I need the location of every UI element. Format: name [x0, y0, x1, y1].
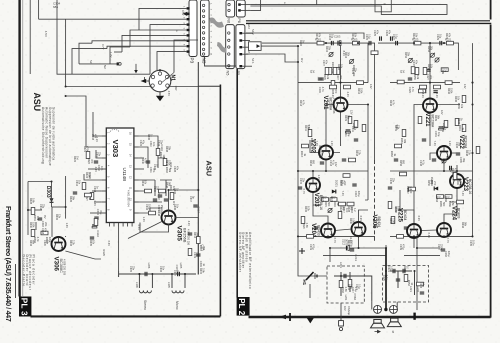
svg-text:4 928 250 256: 4 928 250 256	[186, 229, 189, 246]
svg-text:22n: 22n	[98, 152, 101, 157]
svg-text:R346: R346	[165, 182, 168, 189]
svg-text:R233: R233	[347, 284, 350, 291]
svg-text:PL 3: PL 3	[19, 298, 28, 316]
svg-text:R241: R241	[458, 125, 461, 132]
svg-text:R252: R252	[404, 52, 407, 59]
svg-text:C307: C307	[173, 270, 176, 277]
svg-text:R251: R251	[394, 125, 397, 132]
svg-text:R249: R249	[456, 179, 459, 186]
svg-text:16V: 16V	[343, 306, 347, 311]
svg-text:U114B: U114B	[122, 168, 127, 182]
svg-text:220µ: 220µ	[447, 251, 450, 257]
svg-text:V221: V221	[424, 113, 430, 128]
svg-text:C308: C308	[91, 134, 94, 141]
svg-text:R212: R212	[357, 88, 360, 95]
svg-text:C305: C305	[129, 266, 132, 273]
svg-text:470µ: 470µ	[402, 244, 405, 250]
svg-text:N2: N2	[89, 60, 93, 64]
svg-text:R211: R211	[304, 125, 307, 131]
svg-text:C217: C217	[355, 284, 358, 291]
svg-text:R262: R262	[406, 186, 409, 193]
svg-text:47n: 47n	[429, 75, 432, 80]
svg-text:12V: 12V	[440, 110, 444, 115]
svg-text:10n: 10n	[152, 142, 155, 147]
svg-text:22n: 22n	[132, 266, 135, 271]
svg-text:C213: C213	[354, 191, 357, 198]
svg-text:0.1µ: 0.1µ	[390, 266, 393, 271]
svg-text:C318: C318	[41, 228, 44, 235]
svg-text:22µ: 22µ	[42, 204, 45, 209]
svg-text:270: 270	[430, 180, 433, 185]
svg-text:1.2V: 1.2V	[109, 52, 113, 58]
svg-text:C314: C314	[93, 186, 96, 193]
svg-text:R334: R334	[29, 240, 32, 247]
svg-text:47n: 47n	[376, 30, 379, 35]
svg-text:4.7µ: 4.7µ	[332, 160, 335, 165]
svg-text:1.6V: 1.6V	[65, 223, 69, 229]
svg-text:4 928 230 308: 4 928 230 308	[63, 259, 66, 276]
svg-text:C219: C219	[309, 244, 312, 251]
svg-text:4.7k: 4.7k	[454, 168, 457, 173]
svg-text:BC238A: BC238A	[328, 98, 332, 111]
svg-text:C317: C317	[197, 206, 201, 213]
svg-text:1M: 1M	[76, 156, 79, 159]
svg-text:R214: R214	[299, 100, 302, 107]
svg-text:Automatic Noise Suppression: Automatic Noise Suppression	[45, 107, 49, 158]
svg-text:N3: N3	[201, 58, 206, 64]
svg-text:10n: 10n	[46, 240, 49, 245]
svg-text:Decoder board: Decoder board	[25, 255, 29, 287]
svg-text:4 928 220 238: 4 928 220 238	[332, 98, 335, 114]
svg-text:R244: R244	[461, 222, 464, 229]
svg-text:C309: C309	[193, 252, 196, 259]
svg-text:150k: 150k	[360, 88, 363, 94]
svg-text:0.6Amp: 0.6Amp	[347, 306, 351, 315]
svg-text:C249: C249	[441, 68, 444, 75]
svg-text:R343: R343	[165, 167, 168, 174]
svg-text:ST: ST	[399, 70, 402, 74]
svg-text:R201: R201	[315, 33, 318, 40]
svg-text:10µ: 10µ	[439, 34, 442, 39]
svg-text:15n: 15n	[196, 252, 199, 257]
svg-text:100k: 100k	[88, 172, 91, 178]
svg-text:14V: 14V	[369, 84, 373, 89]
svg-text:R223: R223	[412, 33, 415, 40]
svg-text:R242: R242	[447, 88, 450, 95]
svg-text:0.1µ: 0.1µ	[422, 282, 425, 287]
svg-text:10µ: 10µ	[437, 132, 440, 137]
svg-text:C324: C324	[157, 140, 160, 147]
svg-text:R218: R218	[355, 150, 358, 157]
svg-text:C320: C320	[43, 240, 46, 247]
svg-text:22n: 22n	[444, 68, 447, 73]
svg-text:C241: C241	[441, 126, 444, 133]
svg-text:C311: C311	[149, 167, 152, 173]
svg-text:150p: 150p	[148, 204, 151, 210]
svg-text:Frankfurt Stereo (ASU) 7.635.4: Frankfurt Stereo (ASU) 7.635.440 / 447	[4, 206, 13, 322]
svg-text:4.5V: 4.5V	[44, 31, 48, 37]
svg-text:1.3V: 1.3V	[448, 141, 452, 147]
svg-text:4.7k: 4.7k	[392, 100, 395, 105]
svg-text:0.56: 0.56	[392, 218, 395, 223]
svg-text:7.4V: 7.4V	[341, 191, 345, 197]
svg-text:R248: R248	[465, 150, 468, 157]
svg-text:R211: R211	[310, 138, 313, 144]
svg-text:H1: H1	[302, 280, 307, 286]
svg-text:C211: C211	[344, 131, 347, 137]
svg-text:C243: C243	[419, 160, 422, 167]
svg-text:6.5V: 6.5V	[137, 225, 141, 231]
svg-text:R340: R340	[141, 158, 144, 165]
svg-text:R238: R238	[457, 118, 460, 125]
svg-text:150k: 150k	[32, 222, 35, 228]
svg-text:R313: R313	[199, 245, 202, 252]
svg-text:47n: 47n	[415, 60, 418, 65]
svg-text:C207: C207	[322, 60, 325, 67]
svg-text:4.5V: 4.5V	[167, 91, 171, 97]
svg-text:47n: 47n	[176, 166, 179, 171]
svg-text:11V: 11V	[300, 58, 304, 63]
svg-text:2.4V: 2.4V	[346, 92, 350, 98]
svg-text:R348: R348	[157, 210, 160, 217]
svg-text:wf 1: wf 1	[247, 50, 251, 55]
svg-text:Stereo-NF-Verstärker: Stereo-NF-Verstärker	[238, 232, 242, 273]
svg-text:4.7k: 4.7k	[36, 237, 39, 242]
svg-text:V306: V306	[53, 257, 60, 272]
svg-text:C209: C209	[318, 87, 321, 94]
svg-text:150k: 150k	[168, 160, 171, 166]
svg-text:R266: R266	[448, 201, 451, 208]
svg-text:C328: C328	[173, 166, 176, 173]
svg-text:R265: R265	[439, 201, 442, 208]
svg-text:2.4V: 2.4V	[435, 93, 439, 99]
svg-text:ASU: ASU	[32, 93, 42, 112]
svg-text:4.7µ: 4.7µ	[422, 160, 425, 165]
svg-text:R341: R341	[159, 152, 162, 159]
svg-text:C203: C203	[328, 34, 331, 41]
svg-text:ASU: ASU	[205, 161, 214, 177]
svg-text:0.7V: 0.7V	[101, 44, 105, 50]
svg-text:2200µ: 2200µ	[350, 240, 353, 248]
svg-text:3.9k: 3.9k	[202, 268, 205, 273]
svg-text:V203: V203	[313, 193, 319, 208]
svg-text:R216: R216	[309, 160, 312, 167]
svg-text:0.1µ: 0.1µ	[358, 284, 361, 289]
svg-text:R266: R266	[444, 196, 447, 203]
svg-text:P6: P6	[237, 18, 241, 23]
svg-text:C226: C226	[385, 30, 388, 37]
svg-text:47n: 47n	[94, 134, 97, 139]
svg-text:0.56: 0.56	[344, 287, 347, 292]
svg-text:47n: 47n	[44, 228, 47, 233]
svg-text:R221: R221	[445, 33, 448, 40]
svg-text:BC308C: BC308C	[59, 259, 63, 274]
svg-text:R321: R321	[83, 146, 86, 153]
svg-text:0.1µ: 0.1µ	[395, 34, 398, 39]
svg-text:560: 560	[327, 202, 330, 207]
svg-text:4.7n: 4.7n	[411, 87, 414, 92]
svg-text:C316: C316	[96, 230, 100, 237]
svg-text:BC238-16: BC238-16	[468, 179, 472, 194]
svg-text:L306: L306	[147, 263, 151, 269]
svg-text:Supresión de ruido automáti: Supresión de ruido automática	[51, 107, 55, 160]
svg-text:R264: R264	[435, 196, 438, 203]
svg-text:8V: 8V	[43, 215, 47, 218]
svg-text:10n: 10n	[162, 266, 165, 271]
svg-text:V305: V305	[176, 226, 183, 242]
svg-text:680: 680	[312, 160, 315, 165]
svg-text:470: 470	[334, 89, 337, 94]
svg-text:C223: C223	[419, 282, 422, 289]
svg-text:C336: C336	[173, 204, 176, 211]
svg-text:4.7k: 4.7k	[144, 158, 147, 163]
svg-text:R236: R236	[454, 96, 457, 103]
svg-text:R256: R256	[399, 160, 402, 167]
svg-text:4.5V: 4.5V	[181, 10, 185, 16]
svg-text:C209: C209	[351, 68, 354, 75]
svg-text:47µ: 47µ	[99, 210, 102, 215]
svg-text:0.6V: 0.6V	[107, 241, 111, 247]
svg-text:10µ: 10µ	[347, 132, 350, 137]
svg-text:470: 470	[424, 89, 427, 94]
svg-text:R258: R258	[427, 64, 430, 71]
svg-text:100: 100	[409, 186, 412, 191]
svg-text:56p: 56p	[176, 270, 179, 275]
svg-text:22n: 22n	[156, 186, 159, 191]
svg-text:R338: R338	[165, 146, 168, 153]
svg-text:BD434: BD434	[403, 210, 407, 220]
svg-text:0.4V: 0.4V	[427, 233, 431, 239]
svg-text:0.1µ: 0.1µ	[368, 34, 371, 39]
svg-text:C322: C322	[139, 140, 142, 147]
svg-text:R239: R239	[457, 103, 460, 110]
svg-text:R213: R213	[300, 151, 303, 158]
svg-text:C317: C317	[189, 196, 192, 203]
svg-text:Suppression de bruit automa: Suppression de bruit automatique	[48, 107, 52, 166]
svg-text:V303: V303	[111, 140, 120, 158]
svg-text:7.4V: 7.4V	[433, 141, 437, 147]
svg-text:22n: 22n	[392, 178, 395, 183]
svg-text:47n: 47n	[388, 30, 391, 35]
svg-text:R235: R235	[403, 266, 406, 273]
svg-text:R244: R244	[389, 100, 392, 107]
svg-text:C235: C235	[469, 240, 472, 247]
svg-text:0.56Ω: 0.56Ω	[353, 293, 357, 300]
svg-text:Stereo AF amplifier: Stereo AF amplifier	[241, 232, 245, 269]
svg-text:100: 100	[342, 206, 345, 211]
svg-text:N2: N2	[103, 65, 107, 69]
svg-text:R228: R228	[347, 206, 350, 213]
svg-text:7.4V: 7.4V	[461, 191, 465, 197]
svg-text:C235: C235	[459, 157, 462, 164]
svg-text:C310: C310	[95, 152, 98, 159]
svg-text:100n: 100n	[472, 240, 475, 246]
svg-text:0.56: 0.56	[352, 218, 355, 223]
svg-text:NF 2: NF 2	[251, 29, 255, 35]
svg-text:C314: C314	[96, 209, 99, 216]
svg-text:V201: V201	[322, 96, 328, 111]
svg-text:R261: R261	[400, 138, 403, 145]
svg-text:2200µ: 2200µ	[440, 244, 443, 252]
svg-text:10µ: 10µ	[354, 126, 357, 131]
svg-text:C318: C318	[41, 221, 44, 228]
svg-text:R254: R254	[427, 46, 430, 53]
svg-text:C330: C330	[153, 186, 156, 193]
svg-text:R226: R226	[339, 206, 342, 213]
svg-text:R332: R332	[55, 214, 58, 221]
svg-text:R224: R224	[330, 196, 333, 203]
svg-text:R233: R233	[341, 287, 344, 294]
svg-text:R204: R204	[344, 52, 347, 59]
svg-text:C312: C312	[75, 180, 78, 187]
svg-text:150k: 150k	[450, 88, 453, 94]
svg-text:R330: R330	[29, 222, 32, 229]
svg-text:560: 560	[442, 202, 445, 207]
svg-text:V224: V224	[450, 206, 456, 221]
svg-text:10µ: 10µ	[331, 34, 334, 39]
svg-text:6.9V: 6.9V	[359, 216, 363, 222]
svg-text:N6: N6	[227, 18, 231, 23]
svg-text:68n: 68n	[53, 5, 58, 9]
svg-text:C237: C237	[437, 244, 440, 251]
svg-text:C215: C215	[299, 178, 302, 185]
svg-text:22n: 22n	[302, 178, 305, 183]
svg-text:2.2k: 2.2k	[468, 150, 471, 155]
svg-text:R209: R209	[344, 115, 347, 122]
svg-text:R260: R260	[389, 218, 392, 225]
svg-text:Placa decoder: Placa decoder	[32, 255, 36, 286]
svg-text:R328: R328	[29, 198, 32, 205]
svg-text:4.7k: 4.7k	[459, 179, 462, 184]
svg-text:Decoder-Platte: Decoder-Platte	[21, 255, 25, 288]
svg-text:R323: R323	[87, 158, 90, 165]
svg-text:C231: C231	[434, 131, 437, 138]
svg-text:C233: C233	[455, 142, 458, 149]
svg-text:220µ: 220µ	[357, 191, 360, 197]
svg-text:R234: R234	[394, 206, 397, 213]
svg-text:39p: 39p	[458, 142, 461, 147]
svg-text:R335: R335	[102, 249, 106, 256]
svg-text:V205: V205	[371, 215, 377, 230]
svg-text:R220: R220	[339, 180, 342, 187]
svg-text:R322: R322	[73, 156, 76, 163]
svg-text:L201: L201	[344, 295, 348, 301]
svg-text:2.2k: 2.2k	[72, 240, 75, 245]
svg-text:BC308A: BC308A	[464, 136, 468, 149]
svg-text:0.4V: 0.4V	[93, 201, 97, 207]
svg-text:C229: C229	[436, 34, 439, 41]
svg-text:8.2k: 8.2k	[307, 206, 310, 211]
svg-text:C334: C334	[145, 204, 148, 211]
svg-text:C211: C211	[351, 126, 354, 132]
svg-text:C245: C245	[389, 178, 392, 185]
svg-text:22n: 22n	[354, 68, 357, 73]
svg-text:L306: L306	[135, 282, 139, 288]
svg-text:1.2V: 1.2V	[142, 217, 146, 223]
svg-text:C221: C221	[387, 266, 390, 273]
svg-text:P5: P5	[236, 71, 240, 76]
svg-text:R222: R222	[321, 196, 324, 203]
svg-text:1.3V: 1.3V	[330, 141, 334, 147]
svg-text:Amplificador BF estereofónic: Amplificador BF estereofónico	[248, 232, 252, 289]
svg-text:18P: 18P	[174, 86, 178, 91]
svg-text:R344: R344	[141, 180, 144, 187]
svg-text:R336: R336	[147, 134, 150, 141]
svg-text:C225: C225	[373, 30, 376, 37]
svg-text:39p: 39p	[462, 158, 465, 163]
svg-text:10n: 10n	[100, 166, 103, 171]
svg-text:NF 1: NF 1	[251, 58, 255, 64]
svg-text:0.56: 0.56	[350, 284, 353, 289]
svg-text:BC308A: BC308A	[318, 146, 322, 159]
svg-text:C310: C310	[149, 141, 152, 148]
svg-text:C332: C332	[173, 188, 176, 195]
svg-text:4.2V: 4.2V	[187, 221, 191, 227]
svg-text:L221: L221	[409, 286, 413, 292]
svg-text:10n: 10n	[78, 180, 81, 185]
svg-text:470k: 470k	[86, 146, 89, 152]
svg-text:4.7n: 4.7n	[321, 87, 324, 92]
svg-text:D201: D201	[334, 180, 338, 188]
svg-text:C203: C203	[334, 35, 341, 39]
svg-text:47n: 47n	[339, 75, 342, 80]
svg-text:100: 100	[350, 206, 353, 211]
svg-text:C205: C205	[365, 34, 368, 41]
svg-text:C227: C227	[392, 34, 395, 41]
svg-text:C316: C316	[39, 204, 42, 211]
svg-text:C326: C326	[153, 164, 156, 171]
svg-text:PL 2: PL 2	[237, 298, 246, 316]
svg-text:R203: R203	[351, 33, 354, 40]
svg-text:P3: P3	[190, 58, 195, 64]
svg-text:C306: C306	[159, 266, 162, 273]
svg-text:BD434: BD434	[377, 217, 381, 227]
svg-text:470µ: 470µ	[312, 244, 315, 250]
svg-text:R333: R333	[69, 240, 72, 247]
svg-text:R315: R315	[199, 268, 202, 275]
svg-text:Ampli BF stéréo: Ampli BF stéréo	[245, 232, 249, 262]
svg-text:ST: ST	[309, 70, 312, 74]
svg-text:R326: R326	[69, 196, 72, 203]
svg-text:R232: R232	[304, 206, 307, 213]
svg-text:4.7k: 4.7k	[302, 100, 305, 105]
svg-text:C312: C312	[97, 165, 100, 172]
svg-text:R313: R313	[193, 232, 196, 239]
svg-text:0.7V: 0.7V	[333, 238, 337, 244]
svg-text:R208: R208	[337, 64, 340, 71]
svg-text:680: 680	[402, 160, 405, 165]
svg-text:10µ: 10µ	[444, 126, 447, 131]
svg-text:D303: D303	[45, 186, 51, 198]
svg-text:R342: R342	[165, 160, 168, 167]
svg-text:22n: 22n	[160, 140, 163, 145]
svg-text:BC238A: BC238A	[431, 115, 435, 128]
svg-text:R239: R239	[434, 115, 437, 122]
svg-text:R331: R331	[33, 215, 36, 222]
svg-text:C239: C239	[399, 244, 402, 251]
svg-text:R263: R263	[390, 151, 393, 158]
svg-text:L201: L201	[339, 262, 343, 268]
svg-text:C215: C215	[347, 240, 350, 247]
svg-text:0.56: 0.56	[305, 223, 308, 228]
svg-text:270: 270	[342, 180, 345, 185]
svg-text:2.5k: 2.5k	[336, 201, 339, 206]
svg-text:N1: N1	[170, 75, 176, 82]
svg-text:R230: R230	[349, 218, 352, 225]
svg-text:R250: R250	[427, 180, 430, 187]
svg-text:R335: R335	[89, 240, 92, 247]
svg-text:47µ: 47µ	[142, 140, 145, 145]
